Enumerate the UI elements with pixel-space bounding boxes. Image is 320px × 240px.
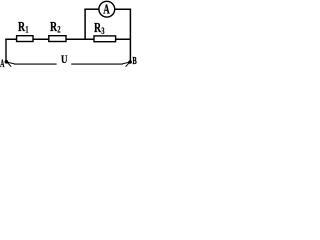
ammeter U1 circle [99,1,115,17]
node B label [132,54,136,66]
svg-text:A: A [0,58,4,71]
resistor R1 label [18,18,29,35]
node B dot [128,60,132,64]
node A label [0,58,4,71]
wire: ammeter branch left leg [84,9,86,40]
svg-text:U: U [61,54,68,66]
wire: ammeter branch top right segment [115,8,131,10]
wire: ammeter branch top left segment [84,8,99,10]
ammeter U1 letter A [103,1,110,16]
svg-text:A: A [103,1,110,16]
wire: main horizontal top wire A-side to B-side [5,38,131,40]
resistor R1 body [17,36,33,42]
svg-text:R3: R3 [94,19,105,36]
voltage U arrowhead at A [7,62,15,67]
resistor R3 body [94,36,116,42]
svg-text:R2: R2 [50,18,61,35]
resistor R3 label [94,19,105,36]
voltage U label [61,54,68,66]
voltage U arrow right shaft [71,63,123,65]
resistor R2 body [49,36,66,42]
resistor R2 label [50,18,61,35]
voltage U arrowhead at B [122,62,130,67]
svg-text:R1: R1 [18,18,29,35]
wire: left vertical from top wire down to node A [5,39,7,62]
wire: right vertical from ammeter branch down to node B [129,9,131,63]
svg-text:B: B [132,54,136,66]
voltage U arrow left shaft [14,63,57,65]
node A dot [5,60,9,64]
